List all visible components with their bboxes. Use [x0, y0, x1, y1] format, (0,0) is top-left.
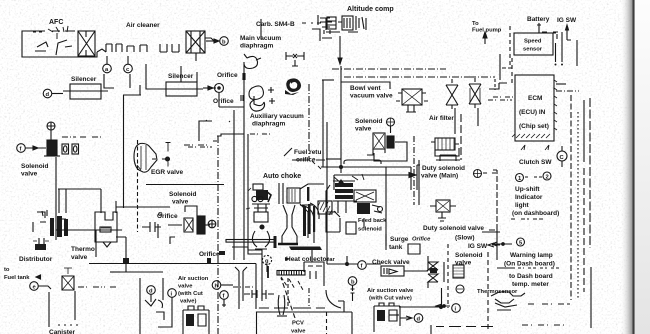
svg-text:valve (Main): valve (Main) [421, 173, 458, 180]
dash-dot under label [511, 218, 543, 220]
svg-text:Solenoid: Solenoid [21, 163, 48, 170]
svg-text:f: f [20, 147, 22, 153]
svg-text:Orifice: Orifice [199, 251, 220, 258]
arrow down from altitude comp [339, 36, 341, 60]
svg-text:valve: valve [355, 126, 372, 133]
horizontal bus y167 [321, 167, 411, 190]
bracket left of ECM [489, 83, 507, 89]
svg-text:sensor: sensor [523, 47, 543, 53]
intake manifold double bar [226, 240, 275, 243]
svg-text:Auto choke: Auto choke [263, 173, 301, 180]
dash-dot bus lines upper middle [332, 68, 446, 70]
svg-text:temp. meter: temp. meter [512, 281, 549, 288]
bolt shape above heat bar [289, 247, 322, 251]
hatched heat box right of choke [318, 201, 332, 215]
wire left from check valve [327, 263, 381, 265]
verticals below [59, 189, 66, 213]
svg-text:Air filter: Air filter [429, 115, 454, 122]
clutch SW arrows [521, 145, 549, 150]
solenoid valve (left) body [44, 140, 60, 156]
svg-text:Solenoid: Solenoid [455, 252, 482, 259]
dashed wire left of speed sensor [509, 26, 511, 66]
arrow from f to solenoid [25, 147, 46, 149]
bowl vent valve symbol [396, 89, 428, 112]
wire corner to canister column [123, 94, 141, 96]
verticals x415 x420 [413, 136, 415, 205]
wires right of speed sensor [556, 32, 578, 66]
svg-text:Carb. SM4-B: Carb. SM4-B [256, 21, 295, 28]
wire under warning lamp [497, 267, 515, 269]
circle + duty [474, 170, 482, 178]
orifice tick 2 [241, 95, 243, 101]
circle i left [168, 289, 177, 298]
wire solenoid valve down [441, 288, 443, 307]
air cleaner body with element [172, 31, 214, 53]
arrow to circle d bottom [400, 316, 412, 320]
svg-text:Warning lamp: Warning lamp [510, 252, 553, 259]
bottom-left wire set [56, 219, 102, 230]
wire from air cleaner down [195, 53, 197, 61]
hose from AFC to air cleaner (corrugated) [97, 49, 106, 52]
label Surge tank + box [386, 234, 420, 254]
svg-text:solenoid: solenoid [358, 227, 382, 233]
dashes between 1 and 2 [525, 176, 542, 178]
svg-text:d: d [46, 92, 50, 98]
orifice tick top [243, 73, 245, 80]
duty solenoid (Main) symbol [430, 155, 460, 221]
vertical x323 [322, 80, 324, 167]
dark swirl annotation [285, 78, 301, 95]
svg-text:Bowl vent: Bowl vent [350, 85, 382, 92]
circle f check [358, 261, 367, 270]
svg-text:Solenoid: Solenoid [169, 191, 196, 198]
hatched solenoid box right [453, 265, 464, 278]
svg-text:h: h [215, 284, 219, 290]
long horizontal y263 [89, 263, 256, 265]
svg-text:diaphragm: diaphragm [240, 43, 273, 50]
svg-text:valve): valve) [180, 299, 197, 305]
svg-text:Fuel tank: Fuel tank [4, 275, 30, 281]
dash-dot line from solenoid right [62, 136, 102, 138]
AFC sensor marks [48, 26, 68, 39]
circle 5 [517, 238, 525, 246]
horizontal bus y175 with arrow [334, 175, 409, 190]
svg-text:(with Cut: (with Cut [178, 291, 203, 297]
air suction valve left drawing [183, 306, 209, 334]
bracket near aux diaphragm [199, 121, 217, 141]
svg-text:Battery: Battery [527, 16, 550, 23]
dash-dot horizontal y145 [184, 144, 208, 146]
diagonal into bus corner [312, 161, 321, 169]
verticals center bottom [239, 271, 243, 309]
svg-text:Up-shift: Up-shift [515, 186, 540, 193]
PCV valve pipes [278, 295, 285, 315]
plus circle center [208, 220, 216, 228]
long vertical from silencer1 down [55, 157, 57, 230]
svg-text:to: to [4, 267, 10, 273]
rounded cap above bus [344, 160, 381, 164]
wires around twin valves [455, 108, 478, 134]
long horizontal y308 dashdot [259, 307, 325, 309]
fuel return orifice wires [284, 148, 325, 160]
dash-dot wire bottom [436, 326, 493, 328]
arrow to circle 5 [492, 242, 512, 246]
battery lead [537, 23, 541, 28]
circle d (canister) [147, 286, 156, 295]
svg-text:Distributor: Distributor [19, 256, 53, 263]
canister verticals [49, 291, 75, 327]
svg-text:Duty solenoid valve: Duty solenoid valve [423, 225, 484, 232]
svg-text:g: g [265, 259, 269, 265]
svg-text:b: b [351, 280, 355, 286]
svg-text:valve: valve [21, 171, 38, 178]
dark blob near canister top [123, 258, 129, 263]
svg-text:Feed back: Feed back [358, 218, 387, 224]
wires bottom left [158, 303, 172, 327]
silencer right box [160, 82, 203, 96]
small valve symbol [286, 52, 304, 66]
svg-text:Air suction: Air suction [178, 276, 209, 282]
circle d bottom [414, 314, 423, 323]
dashed vertical x288 [287, 278, 289, 308]
svg-text:Air cleaner: Air cleaner [126, 22, 160, 29]
svg-text:d: d [149, 289, 153, 295]
long horizontal y312 [256, 311, 352, 313]
svg-text:Solenoid: Solenoid [355, 118, 382, 125]
dash-dot vertical x309 [308, 84, 310, 160]
circle 1 [516, 174, 524, 182]
vertical from orifice circle down [218, 93, 220, 107]
svg-text:(on dashboard): (on dashboard) [512, 210, 559, 217]
circle c [124, 64, 133, 73]
svg-text:(ECU) IN: (ECU) IN [519, 109, 546, 116]
svg-text:Canister: Canister [49, 329, 75, 334]
wire a down to silencer zone [104, 74, 140, 95]
aux diaphragm ticks +5 +1 [268, 87, 275, 104]
svg-text:(On Dash board): (On Dash board) [504, 261, 555, 268]
distributor [33, 238, 49, 250]
circle g [262, 255, 271, 264]
svg-text:Clutch SW: Clutch SW [519, 159, 552, 166]
svg-text:Silencer: Silencer [71, 76, 97, 83]
carburetor curl 2 [56, 40, 72, 55]
circle f2 [220, 291, 229, 300]
svg-text:vacuum valve: vacuum valve [350, 93, 393, 100]
wire stub bottom [430, 325, 432, 334]
wire silencer right up [146, 64, 197, 89]
battery dash to ECM [539, 28, 557, 41]
svg-text:To: To [472, 21, 479, 27]
canister dotted bottom [58, 324, 78, 326]
carburetor curl 1 [35, 42, 48, 51]
svg-text:IG SW: IG SW [557, 17, 577, 24]
page right edge shadow [620, 0, 633, 334]
EGR valve drawing [134, 143, 171, 173]
circle d [43, 89, 52, 98]
auto choke dark cluster [246, 184, 271, 249]
dash-dot line right of ECM top [556, 90, 579, 92]
horizontal wire y189 [58, 188, 101, 190]
thermosensor drawing [491, 292, 525, 310]
circle b bottom [348, 277, 357, 286]
H symbol [252, 289, 266, 299]
svg-text:Auxiliary vacuum: Auxiliary vacuum [250, 113, 304, 120]
diagonal arrow lower [334, 177, 341, 183]
bottom dashes [522, 324, 564, 326]
wire from g down [266, 264, 268, 272]
svg-text:PCV: PCV [292, 321, 304, 327]
choke pipes right [300, 203, 319, 243]
svg-text:Fuel pump: Fuel pump [472, 28, 502, 34]
svg-text:Fuel retu: Fuel retu [294, 149, 321, 156]
speed sensor box [514, 33, 553, 55]
svg-text:tank: tank [389, 244, 403, 251]
circle 2 [543, 172, 551, 180]
svg-text:valve: valve [178, 284, 193, 290]
svg-text:b: b [222, 40, 226, 46]
dash-dot from check valve right [78, 286, 118, 288]
circle a [103, 64, 112, 73]
horizontal link y107 [219, 106, 244, 108]
thick stub under g [267, 266, 269, 278]
svg-text:Altitude comp: Altitude comp [347, 6, 394, 13]
svg-text:d: d [417, 317, 421, 323]
left solenoid (dark bars) [50, 216, 68, 237]
'n tick [42, 210, 47, 216]
twin X valves top [446, 78, 481, 109]
wire from plus down [50, 130, 52, 142]
dashed vertical x488 [487, 252, 489, 330]
right vertical wires bottom [590, 267, 592, 328]
Reed sens dark cluster [326, 174, 383, 234]
IG SW arrow [567, 29, 571, 40]
vertical x262 [248, 249, 262, 301]
solenoid valve right symbol (two X boxes) [428, 256, 444, 288]
solenoid valve center symbol [158, 206, 210, 244]
dash-dot x309 bottom [308, 288, 310, 308]
carb linkage stub [260, 19, 262, 39]
corner down x256 [255, 264, 257, 310]
long dash-dot vertical x218 [217, 136, 219, 334]
big arc carb [326, 290, 341, 308]
canister right bracket [120, 272, 163, 334]
line right of (Slow) [482, 231, 500, 233]
AFC box outline [22, 31, 97, 57]
circle C [557, 151, 567, 161]
circle f (left) [17, 144, 26, 153]
plus circle [47, 122, 55, 130]
svg-text:Speed: Speed [524, 39, 542, 45]
circle e [30, 282, 39, 291]
svg-text:valve: valve [291, 329, 306, 334]
svg-text:Air suction valve: Air suction valve [367, 288, 414, 294]
svg-text:IG SW: IG SW [468, 243, 488, 250]
arrow up fuel pump [484, 35, 486, 44]
dash-dot after label [302, 22, 323, 24]
svg-text:light: light [515, 202, 530, 209]
svg-text:Thermo: Thermo [71, 246, 95, 253]
circle h left [212, 281, 221, 290]
svg-text:(with Cut valve): (with Cut valve) [369, 296, 412, 302]
long verticals x244 x248 [244, 62, 248, 260]
wire air suction valve to node i [399, 306, 441, 308]
circle b (main vacuum) [220, 37, 229, 46]
dark vertical bars right of choke [303, 187, 315, 236]
svg-text:ear: ear [326, 257, 335, 263]
wire right from check valve to solenoid [404, 270, 428, 272]
svg-text:O: O [158, 212, 163, 218]
svg-text:(Slow): (Slow) [455, 235, 475, 242]
orifice circle (dotted center) [215, 84, 224, 93]
vertical x326 left edge of F [326, 122, 328, 264]
dashed wire right of warning lamp [518, 267, 559, 269]
dash-dot wire right of EGR [188, 146, 212, 148]
capacitor mark right [142, 222, 161, 232]
junction dot x341 [340, 166, 343, 169]
arrow silencer2 to orifice circle [203, 87, 216, 89]
auto choke housing [278, 183, 324, 244]
wire d to silencer [52, 93, 63, 95]
wire from e [38, 286, 51, 289]
svg-text:diaphragm: diaphragm [252, 121, 285, 128]
svg-text:Check valve: Check valve [372, 259, 410, 266]
svg-text:AFC: AFC [49, 19, 63, 26]
dash-dot horizontal y287 left [233, 286, 255, 288]
ECM box [512, 75, 557, 141]
heat riser hatched bar [277, 271, 305, 291]
wire x386 [385, 167, 387, 250]
check valve (fuel) [62, 268, 74, 290]
aux vacuum diaphragm shapes [249, 86, 264, 106]
PCV wire [281, 278, 295, 318]
svg-text:2: 2 [546, 175, 549, 181]
silencer left box [63, 84, 108, 99]
corner down to thermo valve [101, 189, 116, 213]
main vacuum diaphragm shape [244, 54, 261, 69]
dash-dot wire left of ECM [488, 99, 512, 101]
wire down from AFC area x122 [123, 95, 125, 208]
wire left of speed sensor [499, 54, 501, 80]
wire y207 from thermo right [116, 206, 170, 208]
svg-text:Duty solenoid: Duty solenoid [422, 165, 465, 172]
circle i bottom right [452, 304, 461, 313]
long verticals bottom of canister area [55, 230, 57, 240]
dashes right of thermosensor [528, 303, 570, 305]
page edge dark line [633, 0, 635, 334]
wire under EGR label [146, 184, 224, 186]
top right small cluster (carb top) [318, 15, 332, 38]
air suction valve right drawing [374, 303, 400, 332]
wire thermo valve to canister [116, 237, 126, 258]
svg-text:Surge: Surge [390, 236, 409, 243]
dash-dot below battery [542, 31, 560, 33]
bracket right of carb label [312, 29, 320, 41]
bracket left [489, 170, 497, 230]
solenoid valve F symbol [367, 126, 394, 155]
page margin band right [635, 0, 650, 334]
check valve box [381, 266, 404, 276]
junction dot [440, 306, 443, 309]
svg-text:Indicator: Indicator [515, 194, 543, 201]
dashed vertical x448 [447, 244, 449, 308]
circle minus [456, 285, 464, 293]
svg-text:(Chip set): (Chip set) [519, 123, 549, 130]
svg-text:ECM: ECM [528, 95, 542, 102]
altitude compensator cluster [326, 16, 366, 32]
svg-text:Orifice: Orifice [412, 237, 431, 243]
svg-text:to Dash board: to Dash board [509, 273, 553, 280]
svg-text:EGR valve: EGR valve [151, 169, 184, 176]
svg-text:valve: valve [172, 199, 189, 206]
two small squares with 0 [62, 144, 79, 154]
wires right of ECM [570, 95, 572, 300]
dashed wire x137 [137, 140, 139, 232]
svg-text:valve: valve [71, 254, 88, 261]
svg-text:f: f [361, 264, 363, 270]
horizontal y134 [217, 134, 244, 136]
long vertical x234 [233, 110, 235, 260]
arrow to circle b [206, 40, 218, 42]
air filter symbol [431, 138, 459, 156]
dashed stub to ECM [502, 67, 514, 69]
wire horizontal y272 [110, 271, 120, 273]
circle G [387, 118, 395, 126]
heat collector box [304, 262, 324, 286]
svg-text:Orifice: Orifice [217, 72, 238, 79]
svg-text:f: f [223, 294, 225, 300]
svg-text:Orifice: Orifice [213, 98, 234, 105]
wire a up [107, 56, 128, 64]
thermo valve drawing [95, 212, 117, 247]
left box region F [340, 66, 342, 173]
X-hatched element in AFC box [78, 31, 95, 56]
